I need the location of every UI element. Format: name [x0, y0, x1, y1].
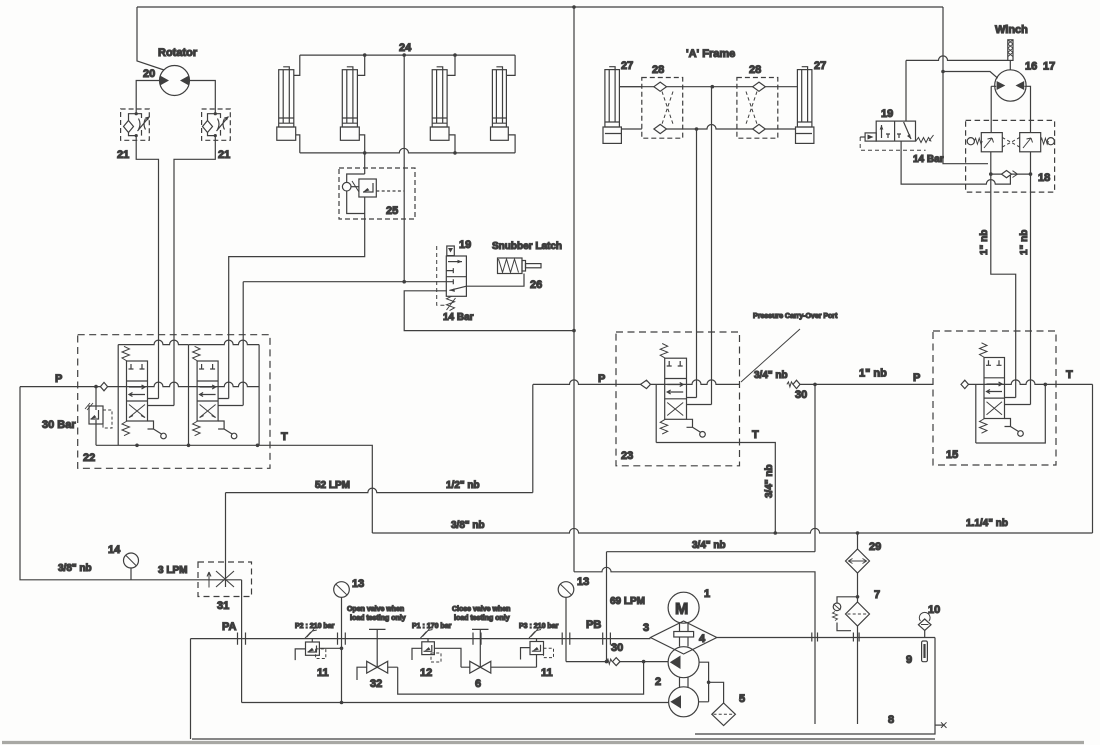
wire: winch line B (1in nb) [1030, 174, 1032, 404]
svg-text:Winch: Winch [995, 24, 1028, 36]
svg-text:28: 28 [652, 64, 664, 76]
wire: 31 to PA port [241, 580, 243, 703]
svg-text:16: 16 [1025, 61, 1037, 73]
wire: 69 LPM riser [606, 552, 608, 662]
svg-text:Pressure Carry-Over Port: Pressure Carry-Over Port [753, 311, 838, 320]
relief valve 12 (P1) [412, 628, 461, 668]
svg-text:3 LPM: 3 LPM [158, 565, 187, 576]
svg-text:11: 11 [317, 667, 329, 679]
node: pump manifold line [191, 638, 651, 640]
pump 2 (lower) [669, 677, 699, 717]
filter 29 [846, 533, 870, 573]
wire: P gallery bank 23 [651, 380, 740, 385]
valve bank 23 (dashed enclosure) [616, 332, 740, 466]
check valve (bank 23 inlet) [641, 380, 651, 388]
breather 10 [918, 612, 931, 637]
wire: T return bank 22 to 3/8 nb [270, 445, 372, 533]
svg-text:32: 32 [370, 678, 382, 690]
wire: valve U22a service ports [148, 399, 175, 406]
svg-text:3/4" nb: 3/4" nb [692, 540, 726, 551]
cylinder 27 (right) [796, 67, 814, 144]
shut-off valve 6 [461, 629, 537, 673]
svg-text:6: 6 [475, 678, 481, 690]
svg-text:30: 30 [611, 642, 623, 654]
motor 16 (winch) [995, 70, 1026, 101]
wire: P gallery bank 22 [108, 382, 260, 387]
svg-text:3/4" nb: 3/4" nb [754, 370, 788, 381]
svg-text:28: 28 [749, 64, 761, 76]
tank 8 [192, 638, 935, 740]
cylinder 24-4 [491, 55, 516, 153]
lock valve 28 (left) [642, 78, 683, 139]
svg-text:Rotator: Rotator [158, 47, 198, 59]
svg-text:P: P [913, 372, 920, 384]
svg-text:21: 21 [218, 149, 230, 161]
counterbalance valve block 18 [966, 120, 1055, 192]
wire: T return to 1.1/4 nb line [1092, 384, 1094, 533]
node: 52 LPM / 1/2 nb line [226, 488, 533, 493]
wire: P supply to bank 22 [20, 385, 100, 389]
drain point x [935, 722, 947, 728]
wire: rotator right port [190, 81, 216, 110]
valve U23 (directional control) [656, 344, 705, 443]
svg-text:T: T [752, 429, 759, 441]
svg-text:P1 : 170 bar: P1 : 170 bar [412, 623, 452, 630]
svg-text:14: 14 [108, 544, 121, 556]
port: fitting 4 [562, 633, 570, 645]
scan edge band [2, 741, 1084, 744]
valve 21 (left flow control) [121, 109, 150, 140]
valve bank 22 (dashed enclosure) [78, 335, 270, 469]
relief valve 25 [339, 168, 415, 219]
valve U22b (directional control) [189, 340, 259, 445]
wire: P line into bank 23 [533, 380, 641, 385]
svg-text:3/8" nb: 3/8" nb [58, 563, 92, 574]
wire: P gallery bank 15 [969, 380, 1093, 385]
valve 19 (winch brake valve) [860, 121, 933, 150]
filter 7 [846, 602, 870, 724]
bell housing 3/4 [650, 621, 716, 654]
wire: valve 19 lower port to carry-over node [404, 291, 576, 333]
node: 3/8 nb return line [372, 528, 1092, 534]
wire: rotator A line down to valve bank 22 [136, 140, 158, 344]
svg-text:1" nb: 1" nb [859, 368, 887, 380]
node: T return bank 15 [976, 383, 1047, 443]
wire: PA return loop [190, 639, 192, 739]
svg-text:P: P [598, 373, 605, 385]
wire: counterbalance outlets [991, 152, 1031, 174]
wire: pump suction [699, 662, 724, 703]
wire: rotator left port [136, 81, 159, 110]
wire: U22a port A riser [158, 344, 160, 399]
gauge 13 (PA side) [334, 582, 350, 703]
svg-text:Snubber Latch: Snubber Latch [492, 241, 562, 252]
valve U15 (directional control) [976, 343, 1024, 443]
relief valve 30 Bar [85, 387, 112, 446]
check valve 30 (carry-over) [787, 380, 800, 388]
lock valve 28 (right) [737, 78, 778, 139]
wire: valve 19 top port [905, 60, 907, 121]
wire: bank 24 service line down [229, 153, 365, 344]
check valve (box 18) [989, 171, 1032, 178]
gauge 14 [124, 553, 139, 580]
svg-text:1.1/4" nb: 1.1/4" nb [966, 518, 1008, 529]
cylinder 24-3 [430, 55, 455, 153]
svg-text:M: M [675, 601, 688, 618]
valve 19 (snubber sequence valve) [437, 246, 467, 311]
svg-text:1: 1 [704, 588, 710, 600]
svg-text:1/2" nb: 1/2" nb [446, 480, 480, 491]
valve bank 15 (dashed enclosure) [933, 331, 1056, 465]
svg-text:8: 8 [888, 714, 894, 726]
wire: A-frame node lines down to valve 23 [697, 87, 712, 405]
wire: top bus down right side [941, 7, 988, 164]
svg-text:30: 30 [795, 389, 807, 401]
port: PA fitting [238, 633, 246, 645]
valve U22a (directional control) [118, 340, 188, 445]
wire: 52 LPM down to flow control 31 [225, 493, 227, 571]
svg-text:9: 9 [906, 654, 912, 666]
wire: gauge port to drain [340, 647, 344, 651]
port: PB fitting [603, 633, 611, 645]
svg-text:T: T [1066, 369, 1073, 381]
wire: 3/4 nb pump feed line [607, 551, 816, 553]
node: T gallery bank 22 [96, 444, 270, 448]
motor 1 (electric) [668, 592, 699, 623]
port: tank fitting A [812, 633, 818, 642]
svg-text:2: 2 [655, 676, 661, 688]
relief valve 11 (P3) [521, 628, 554, 668]
svg-text:1" nb: 1" nb [1019, 230, 1030, 255]
node: cylinder bank top bus [300, 53, 515, 57]
svg-text:52 LPM: 52 LPM [315, 480, 350, 491]
node: top bus wire [137, 5, 943, 9]
svg-text:load testing only: load testing only [454, 615, 510, 622]
level gauge 9 [922, 641, 928, 662]
svg-text:Close valve when: Close valve when [452, 606, 510, 613]
wire: carry-over leader line [741, 329, 800, 382]
pump 2 (upper) [668, 647, 699, 678]
svg-text:3/4" nb: 3/4" nb [764, 464, 775, 498]
svg-text:1" nb: 1" nb [979, 230, 990, 255]
svg-text:13: 13 [352, 578, 364, 590]
port: tank fitting B [853, 633, 859, 642]
wire: U22a port B riser [173, 344, 175, 406]
motor 20 (rotator) [160, 66, 190, 96]
node: pump 1 pressure line [566, 660, 668, 664]
port: fitting 3 [473, 633, 481, 645]
wire: winch motor left down [991, 86, 996, 132]
svg-text:21: 21 [117, 149, 129, 161]
svg-text:7: 7 [874, 589, 880, 601]
svg-text:P: P [55, 373, 62, 385]
svg-text:11: 11 [541, 667, 553, 679]
svg-text:20: 20 [143, 68, 155, 80]
svg-text:19: 19 [459, 239, 471, 251]
svg-text:23: 23 [621, 450, 633, 462]
check valve (bank 22 inlet) [100, 382, 107, 390]
cylinder 24-2 [340, 55, 364, 153]
node: cylinder bank bottom bus [300, 148, 515, 154]
svg-text:17: 17 [1043, 61, 1055, 73]
svg-text:PA: PA [222, 621, 237, 633]
node: A-frame top line [619, 85, 753, 89]
wire: 1/2 nb P feed [532, 384, 534, 492]
wire: top bus to rotator [137, 7, 164, 70]
wire: rotator B line down to valve bank 22 [174, 140, 215, 344]
wire: valve U22b service ports [218, 399, 243, 406]
gauge 13 (PB side) [558, 582, 574, 662]
wire: valve 19 bottom port to box 18 [901, 141, 1010, 184]
wire: latch 26 to valve 19 [466, 274, 524, 287]
svg-text:26: 26 [530, 279, 542, 291]
wire: 1in nb down to pump line [814, 384, 816, 551]
svg-text:10: 10 [928, 604, 940, 616]
wire: valve 19 to winch drum line [906, 56, 1008, 60]
svg-text:P3 : 210 bar: P3 : 210 bar [519, 623, 559, 630]
strainer 5 [712, 703, 736, 726]
wire: T return bank 23 [656, 443, 775, 534]
wire: carry-over to tank leg [574, 567, 815, 724]
wire: valve U15 service ports [1005, 398, 1031, 405]
cylinder 27 (left) [603, 67, 642, 144]
wire: winch motor right down [1024, 86, 1030, 132]
check valve 30 (pump 1) [607, 658, 621, 666]
svg-text:14 Bar: 14 Bar [913, 154, 944, 165]
svg-text:P2 : 210 bar: P2 : 210 bar [295, 623, 335, 630]
wire: P supply loop (left) [20, 387, 242, 580]
wire: winch line A (1in nb) [991, 174, 1016, 397]
svg-text:PB: PB [586, 619, 601, 631]
svg-text:27: 27 [814, 60, 826, 72]
shut-off valve 32 [357, 629, 398, 680]
wire: U22b port A riser [228, 344, 230, 399]
svg-text:15: 15 [946, 449, 958, 461]
check valve (bank 15 inlet) [961, 380, 969, 388]
wire: load test return [398, 662, 644, 695]
wire: bank 24 center line down through item 25 [403, 55, 405, 282]
svg-text:4: 4 [699, 633, 706, 645]
wire: filter 29 to filter 7 [856, 573, 860, 602]
winch drum 17 [1008, 40, 1013, 70]
svg-text:22: 22 [83, 452, 95, 464]
svg-text:27: 27 [621, 60, 633, 72]
svg-text:load testing only: load testing only [350, 615, 406, 622]
svg-text:5: 5 [739, 693, 745, 705]
svg-text:13: 13 [577, 576, 589, 588]
svg-text:29: 29 [869, 541, 881, 553]
valve 21 (right flow control) [202, 109, 231, 140]
svg-text:31: 31 [217, 600, 229, 612]
wire: node to winch motor inlet [943, 72, 998, 79]
flow control 31 [198, 562, 252, 597]
svg-text:Open valve when: Open valve when [347, 606, 404, 613]
wire: tank top line [717, 637, 935, 639]
node: 1in nb junction [800, 383, 933, 387]
svg-text:T: T [281, 431, 288, 443]
svg-text:3/8" nb: 3/8" nb [451, 520, 485, 531]
wire: carry-over vertical (main center line) [573, 7, 575, 572]
wire: U22b port B riser [242, 282, 244, 406]
svg-text:69 LPM: 69 LPM [610, 596, 645, 607]
wire: line to valve 19 upper port [243, 280, 446, 284]
svg-text:24: 24 [399, 42, 412, 54]
check valve (filter 7 bypass) [833, 597, 858, 631]
svg-text:14 Bar: 14 Bar [443, 312, 474, 323]
svg-text:3: 3 [643, 622, 649, 634]
svg-text:19: 19 [881, 108, 893, 120]
svg-text:25: 25 [386, 205, 398, 217]
port: fitting 2 [338, 633, 346, 645]
wire: suction header [242, 701, 669, 705]
actuator 26 (snubber latch cylinder) [498, 258, 542, 274]
relief valve 11 (P2) [295, 628, 341, 660]
node: A-frame bottom line [667, 125, 754, 131]
wire: A-frame top line right [765, 87, 797, 129]
svg-text:18: 18 [1038, 172, 1050, 184]
svg-text:12: 12 [420, 667, 432, 679]
svg-text:30 Bar: 30 Bar [42, 419, 76, 431]
cylinder 24-1 [277, 55, 300, 153]
wire: valve U23 service ports [687, 398, 712, 405]
svg-text:'A' Frame: 'A' Frame [686, 48, 735, 60]
